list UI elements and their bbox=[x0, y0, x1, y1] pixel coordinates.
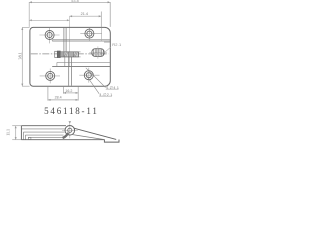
pin collar bbox=[55, 51, 58, 57]
leader lines to hole BR bbox=[86, 68, 106, 88]
svg-text:R2.1: R2.1 bbox=[112, 42, 122, 47]
pin end stubs bbox=[79, 51, 81, 53]
bottom dimension 28.4 bbox=[48, 87, 78, 101]
svg-text:4-∅2.1: 4-∅2.1 bbox=[99, 92, 113, 97]
plate outline bbox=[30, 27, 110, 86]
side view inner laminations bbox=[21, 129, 65, 140]
arm lower edge bbox=[73, 135, 105, 140]
svg-text:53.8: 53.8 bbox=[71, 0, 78, 3]
pin body cells bbox=[61, 52, 78, 56]
top view: left vertical dimension 38.1 bbox=[22, 27, 30, 86]
fold line end caps bbox=[51, 40, 53, 41]
top dimension line B 21.4 bbox=[70, 12, 102, 27]
knuckle slot verticals lower bbox=[68, 57, 70, 86]
internal fold line lower (double) bbox=[57, 61, 110, 63]
short vertical right of upper band bbox=[100, 28, 102, 41]
hole TR bbox=[80, 28, 102, 41]
hole BR bbox=[79, 68, 99, 83]
svg-text:21.4: 21.4 bbox=[81, 12, 88, 16]
side view body bbox=[21, 126, 104, 140]
short vertical below pin bbox=[64, 57, 66, 67]
knuckle slot verticals upper bbox=[63, 28, 65, 52]
pin body bbox=[60, 52, 78, 57]
svg-text:28.4: 28.4 bbox=[55, 96, 62, 100]
hatched slot (stadium) bbox=[89, 46, 107, 58]
internal fold line upper (double) bbox=[52, 39, 110, 41]
pin head (dark) bbox=[57, 51, 60, 58]
arm upper tangent bbox=[74, 128, 116, 139]
svg-text:546118-11: 546118-11 bbox=[44, 106, 99, 116]
knuckle circle bbox=[62, 122, 78, 139]
hole BL bbox=[40, 69, 60, 84]
small arrow above knuckle bbox=[69, 121, 72, 123]
foot bbox=[104, 140, 119, 143]
overall width dimension (clipped at top) bbox=[29, 2, 110, 27]
pin body dividers bbox=[64, 52, 73, 57]
label R2.1 with leader bbox=[105, 47, 111, 52]
pin horizontal centerline (dash-dot) bbox=[31, 53, 109, 55]
hole TL bbox=[39, 28, 59, 44]
svg-text:16.2: 16.2 bbox=[65, 89, 72, 93]
side view: left vertical dimension 11.1 bbox=[12, 126, 21, 140]
bent leaf elbow (dark) bbox=[63, 133, 69, 138]
pin body hatching bbox=[64, 52, 77, 56]
top dimension line A (left, unlabeled) bbox=[29, 2, 69, 27]
svg-text:11.1: 11.1 bbox=[6, 129, 11, 136]
short line near right edge bbox=[104, 41, 110, 43]
hinge vertical centerline bbox=[69, 16, 71, 66]
svg-text:4-∅4.1: 4-∅4.1 bbox=[106, 85, 120, 90]
svg-text:38.1: 38.1 bbox=[18, 52, 23, 59]
bottom dimension 16.2 bbox=[63, 87, 78, 101]
